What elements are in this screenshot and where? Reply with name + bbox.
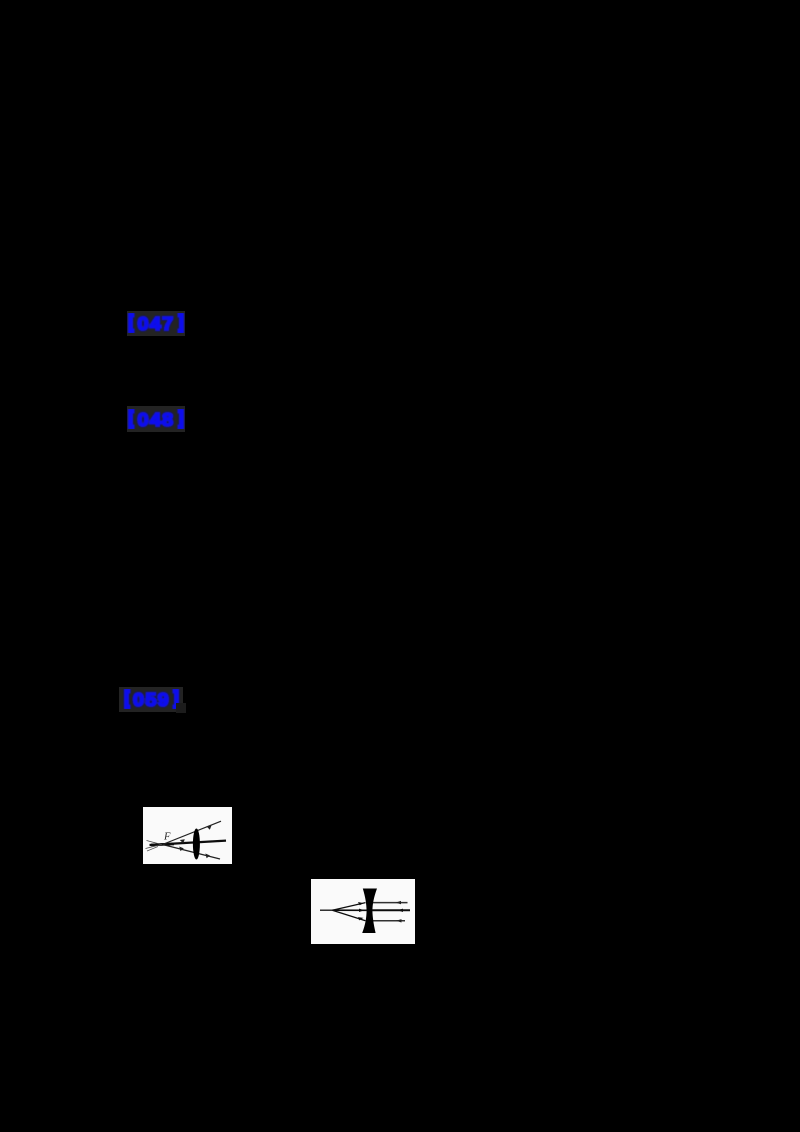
optical axis — [150, 841, 227, 845]
arrowheads right side (pointing left) — [396, 901, 402, 904]
lower diverging ray — [163, 845, 221, 860]
label [059] blue marker with dark halo — [119, 687, 183, 712]
figure 1: convex lens ray diagram, white box — [143, 807, 232, 864]
upper diverging ray — [163, 821, 222, 844]
incoming left thin rays — [147, 841, 163, 845]
small dark artifact after [059] — [176, 703, 186, 713]
svg-text:059: 059 — [133, 690, 170, 710]
right parallel rays — [371, 902, 408, 904]
label [047] blue marker with dark halo — [127, 311, 185, 336]
concave lens bowtie — [362, 889, 377, 934]
left converging rays — [332, 903, 365, 911]
arrowheads — [180, 839, 185, 843]
lens body — [193, 829, 200, 860]
svg-text:048: 048 — [138, 410, 175, 430]
figure 2: concave lens ray diagram, white box — [311, 879, 415, 944]
arrowheads left side (pointing right) — [358, 902, 364, 905]
left tail — [320, 909, 332, 911]
svg-text:047: 047 — [138, 314, 175, 334]
label [048] blue marker with dark halo — [127, 406, 185, 432]
svg-text:F: F — [163, 832, 171, 843]
